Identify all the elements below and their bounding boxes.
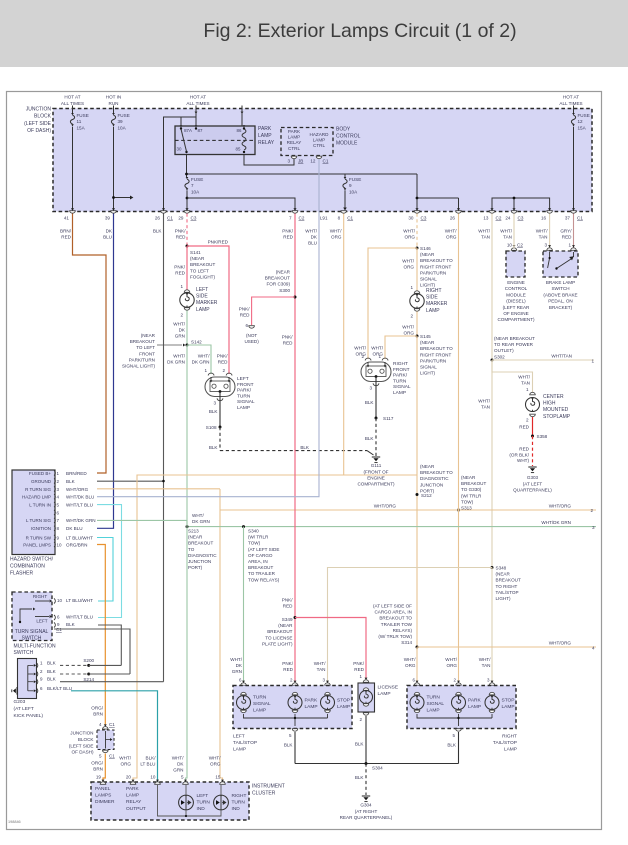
svg-text:BLK: BLK (47, 677, 57, 682)
svg-text:OUTLET): OUTLET) (494, 348, 514, 353)
svg-text:IND: IND (197, 806, 206, 812)
svg-text:ALL TIMES: ALL TIMES (559, 101, 582, 106)
svg-text:PARK: PARK (126, 786, 140, 792)
svg-text:(W/ TRLR TOW): (W/ TRLR TOW) (378, 634, 412, 639)
wire fuse 7 to pin 7 C2 (187, 198, 295, 211)
G203 connector box (18, 659, 37, 699)
wire BRN/RED pin41 to hazard switch pin1 (73, 214, 107, 474)
svg-text:HAZARD: HAZARD (310, 132, 330, 137)
svg-text:LAMP: LAMP (427, 707, 440, 713)
wire S314 down to right turn lamp (416, 647, 418, 682)
svg-text:WHT/: WHT/ (500, 229, 512, 234)
svg-text:(ABOVE BRAKE: (ABOVE BRAKE (543, 292, 577, 297)
svg-text:BLK/LT BLU: BLK/LT BLU (47, 686, 72, 691)
svg-text:C3: C3 (421, 216, 427, 221)
svg-text:CLUSTER: CLUSTER (252, 790, 276, 796)
left tail internal bus (244, 714, 328, 718)
svg-text:ORG: ORG (405, 235, 416, 240)
svg-text:BLU: BLU (308, 241, 317, 246)
svg-text:LT BLU/WHT: LT BLU/WHT (66, 535, 93, 540)
small junction block box (97, 730, 114, 750)
svg-text:7: 7 (57, 518, 60, 523)
svg-text:LAMP: LAMP (288, 135, 301, 140)
svg-text:PARK/: PARK/ (237, 388, 252, 394)
splice S142 (186, 344, 189, 347)
svg-text:1: 1 (40, 660, 43, 665)
svg-text:(NEAR: (NEAR (141, 333, 156, 338)
offpage wire 3 WHT/DK GRN (187, 526, 596, 528)
svg-text:39: 39 (118, 119, 124, 124)
svg-text:WHT/: WHT/ (536, 229, 548, 234)
svg-text:BRACKET): BRACKET) (549, 305, 573, 310)
svg-text:LAMP: LAMP (426, 308, 440, 314)
svg-text:TURN: TURN (232, 800, 246, 806)
svg-text:PARK/: PARK/ (393, 373, 408, 379)
svg-text:BREAKOUT: BREAKOUT (130, 339, 155, 344)
svg-text:PNK/: PNK/ (282, 598, 293, 603)
ground at G203 (16, 687, 18, 695)
wire hazard pin4 WHT/DK BLU to BCM riser (97, 225, 319, 497)
svg-text:DK: DK (106, 229, 113, 234)
svg-text:RED: RED (283, 667, 293, 672)
svg-text:DIAGNOSTIC: DIAGNOSTIC (188, 553, 217, 558)
splice S349 (294, 616, 297, 619)
svg-text:FLASHER: FLASHER (10, 571, 33, 577)
svg-text:LAMP: LAMP (313, 138, 326, 143)
right turn signal lamp bulb (410, 696, 424, 710)
svg-text:2: 2 (591, 508, 594, 513)
svg-text:2: 2 (453, 678, 456, 683)
wire internal bus pins 16 to 13/24 (492, 198, 550, 211)
svg-text:PNK/: PNK/ (282, 661, 293, 666)
splice S141 (186, 245, 189, 248)
svg-text:WHT/DK GRN: WHT/DK GRN (66, 518, 96, 523)
svg-text:HOT AT: HOT AT (190, 95, 206, 100)
svg-text:S213: S213 (188, 529, 199, 534)
wire hot feed to relay 87/87A (195, 112, 197, 126)
wire WHT/TAN pin24C3 to ECM (513, 214, 515, 249)
svg-text:PARK: PARK (288, 129, 301, 134)
svg-text:(FRONT OF: (FRONT OF (364, 470, 389, 475)
instrument cluster box (91, 782, 249, 820)
svg-text:DK: DK (311, 235, 318, 240)
svg-text:LAMP: LAMP (196, 307, 210, 313)
splice S358 (531, 435, 534, 438)
svg-text:TO LEFT: TO LEFT (190, 268, 209, 273)
svg-text:FUSE: FUSE (578, 113, 590, 118)
svg-text:SIDE: SIDE (196, 294, 208, 300)
cluster internal wiring (158, 785, 222, 816)
svg-text:4: 4 (99, 722, 102, 727)
svg-text:C1: C1 (109, 722, 115, 727)
svg-text:S200: S200 (83, 658, 94, 663)
svg-text:5: 5 (99, 754, 102, 759)
svg-text:PNK/: PNK/ (282, 229, 293, 234)
svg-text:G303: G303 (527, 475, 539, 480)
svg-text:5: 5 (181, 775, 184, 780)
svg-text:QUARTERPANEL): QUARTERPANEL) (513, 488, 552, 493)
svg-text:WHT/: WHT/ (119, 756, 131, 761)
svg-text:S340: S340 (248, 529, 259, 534)
svg-text:RED: RED (61, 235, 71, 240)
svg-text:2: 2 (222, 368, 225, 373)
svg-text:REAR QUARTERPANEL): REAR QUARTERPANEL) (340, 815, 393, 820)
wire G203 pin6 BLK/LT BLU to cluster pin10 (71, 691, 158, 783)
svg-text:BLK: BLK (355, 775, 365, 780)
svg-text:RED: RED (354, 667, 364, 672)
svg-text:15A: 15A (578, 125, 587, 130)
wire PNK/RED pin29 dashed to S141 (186, 214, 188, 247)
svg-text:USED): USED) (244, 339, 259, 344)
svg-text:PANEL: PANEL (95, 786, 111, 792)
svg-text:LAMP: LAMP (504, 746, 517, 752)
svg-text:RIGHT: RIGHT (502, 734, 517, 740)
svg-text:BREAKOUT TO: BREAKOUT TO (420, 258, 453, 263)
svg-text:PARK: PARK (305, 698, 319, 704)
fuse 11 15A (71, 113, 74, 115)
svg-text:BLK: BLK (284, 743, 294, 748)
svg-text:ENGINE: ENGINE (367, 476, 385, 481)
wire WHT/DK GRN down to cluster pin5 (186, 527, 188, 782)
svg-text:(AT LEFT SIDE OF: (AT LEFT SIDE OF (373, 604, 412, 609)
wire G203 pin9 to BLK riser (60, 681, 164, 683)
svg-text:HAZARD LMP: HAZARD LMP (22, 495, 51, 500)
svg-text:10: 10 (57, 542, 63, 547)
svg-text:LIGHT): LIGHT) (420, 371, 436, 376)
svg-text:TAN: TAN (481, 235, 490, 240)
wire S348 down to right stop lamp (491, 568, 493, 683)
svg-text:DIAGNOSTIC: DIAGNOSTIC (420, 476, 449, 481)
svg-text:PEDAL, ON: PEDAL, ON (548, 299, 573, 304)
svg-text:BLK: BLK (355, 742, 365, 747)
svg-text:87A: 87A (184, 128, 192, 133)
svg-text:S358: S358 (537, 434, 548, 439)
svg-text:29: 29 (178, 216, 184, 221)
svg-text:LAMP: LAMP (502, 704, 515, 710)
hazard switch / combination flasher box (12, 470, 55, 555)
svg-text:2: 2 (361, 354, 364, 359)
svg-text:S117: S117 (383, 416, 394, 421)
wire stop lamp bus S313 to left stop (328, 568, 459, 683)
svg-text:(DIESEL): (DIESEL) (506, 299, 526, 304)
svg-text:WHT/: WHT/ (402, 325, 414, 330)
svg-text:3: 3 (287, 159, 290, 164)
wire right lamp pin3 BLK to S117 (375, 377, 377, 419)
svg-text:BREAKOUT TO: BREAKOUT TO (420, 346, 453, 351)
svg-text:G203: G203 (14, 699, 26, 705)
svg-text:C2: C2 (496, 216, 502, 221)
splice S304 (365, 762, 368, 765)
svg-text:WHT/: WHT/ (402, 259, 414, 264)
svg-text:BLK/: BLK/ (146, 756, 157, 761)
svg-text:STOP: STOP (502, 698, 515, 704)
wire BLK pin26C1 vertical (163, 214, 165, 682)
svg-text:STOP: STOP (337, 698, 350, 704)
svg-text:BLOCK: BLOCK (34, 114, 52, 120)
svg-text:(NEAR: (NEAR (188, 535, 203, 540)
svg-text:TO: TO (188, 547, 195, 552)
svg-text:(NEAR: (NEAR (420, 464, 435, 469)
svg-text:FUSE: FUSE (191, 177, 203, 182)
splice S348 (491, 566, 494, 569)
svg-text:3: 3 (487, 678, 490, 683)
svg-text:S314: S314 (401, 640, 412, 645)
svg-text:10: 10 (57, 598, 63, 603)
rear ground bus BLK (295, 763, 459, 765)
BCM pin 12 C1 (316, 156, 322, 159)
svg-text:Fig 2: Exterior Lamps Circuit: Fig 2: Exterior Lamps Circuit (1 of 2) (203, 20, 516, 42)
svg-text:HOT AT: HOT AT (563, 95, 579, 100)
fuse 12 15A (572, 113, 575, 115)
wire pin 26 riser to relay (164, 117, 182, 211)
svg-text:WHT/: WHT/ (518, 375, 530, 380)
wire TSS pin9 BLK to S200 (98, 625, 121, 665)
wire JB pin5 ORG/BRN to cluster pin19 (103, 754, 105, 783)
svg-text:WHT): WHT) (517, 458, 529, 463)
svg-text:PNK/: PNK/ (217, 354, 228, 359)
svg-text:TURN SIGNAL: TURN SIGNAL (15, 629, 49, 635)
svg-text:TAN: TAN (481, 405, 490, 410)
svg-text:(LEFT REAR: (LEFT REAR (503, 305, 530, 310)
svg-text:6: 6 (245, 323, 248, 328)
svg-text:BRN/RED: BRN/RED (66, 471, 87, 476)
svg-text:TAIL/STOP: TAIL/STOP (496, 590, 519, 595)
svg-text:WHT/ORG: WHT/ORG (549, 641, 572, 646)
svg-text:WHT/ORG: WHT/ORG (549, 504, 572, 509)
fuse 7 10A (186, 177, 189, 179)
svg-text:LEFT: LEFT (237, 376, 249, 382)
wire WHT/ORG pin30C3 dashed to S146 (416, 214, 418, 249)
svg-text:12: 12 (310, 159, 316, 164)
svg-text:TAN: TAN (521, 381, 530, 386)
offpage wire 4 WHT/ORG (417, 646, 596, 648)
svg-text:LEFT: LEFT (196, 287, 208, 293)
svg-text:RED: RED (283, 604, 293, 609)
svg-text:WHT/: WHT/ (209, 756, 221, 761)
wire pin13 down to S348 (491, 360, 493, 568)
svg-text:WHT/: WHT/ (192, 513, 204, 518)
svg-text:C1: C1 (347, 216, 353, 221)
svg-text:C1: C1 (109, 754, 115, 759)
wire G203 pin2 dashed (60, 673, 89, 675)
wire RED dashed to G303 (532, 436, 534, 466)
svg-text:SIGNAL: SIGNAL (420, 277, 437, 282)
svg-text:RELAYS): RELAYS) (393, 628, 413, 633)
svg-text:LIGHT): LIGHT) (420, 283, 436, 288)
wire BCM pin 12 down (WHT/DK BLU riser) (318, 159, 320, 225)
svg-text:JB: JB (298, 159, 303, 164)
fuse 39 10A (112, 113, 115, 115)
svg-text:CENTER: CENTER (543, 394, 564, 400)
svg-text:1: 1 (180, 284, 183, 289)
splice S145 (416, 335, 419, 338)
svg-text:(LEFT SIDE: (LEFT SIDE (24, 121, 52, 127)
svg-text:S141: S141 (190, 250, 201, 255)
wire hazard pin9 LT BLU/WHT to TSS pin10 (97, 538, 113, 602)
wire S340 down to left turn lamp (243, 527, 245, 682)
svg-text:BLK: BLK (209, 409, 219, 414)
svg-text:TAIL/STOP: TAIL/STOP (493, 740, 517, 746)
svg-text:S146: S146 (420, 246, 431, 251)
svg-text:RELAY: RELAY (126, 799, 142, 805)
svg-text:C1: C1 (167, 216, 173, 221)
svg-text:JUNCTION: JUNCTION (420, 482, 443, 487)
svg-text:HOT AT: HOT AT (64, 95, 80, 100)
svg-text:1: 1 (568, 243, 571, 248)
svg-text:3: 3 (592, 525, 595, 530)
svg-text:LAMP: LAMP (258, 133, 272, 139)
wire fuse12 to pin 37 (573, 127, 575, 211)
svg-text:PORT): PORT) (188, 565, 203, 570)
wire fuse11 to pin 41 (72, 127, 74, 211)
svg-text:(W/ TRLR: (W/ TRLR (248, 535, 269, 540)
svg-text:BLK: BLK (209, 445, 219, 450)
svg-text:(NEAR: (NEAR (496, 572, 511, 577)
svg-text:DK BLU: DK BLU (66, 526, 83, 531)
wire S300 to not-used pin (252, 297, 295, 325)
svg-text:39: 39 (105, 216, 111, 221)
svg-text:BLOCK: BLOCK (78, 737, 95, 742)
svg-text:CONTROL: CONTROL (336, 134, 361, 140)
svg-text:ORG/: ORG/ (91, 706, 103, 711)
wire G203 pin1 dashed to S200 (60, 664, 89, 666)
wire stoplamp RED to S358 (532, 417, 534, 436)
fuse 9 10A (344, 177, 347, 179)
wire S141 to left park/turn lamp pin2 (187, 246, 229, 374)
svg-text:BRAKE LAMP: BRAKE LAMP (546, 280, 575, 285)
svg-text:6: 6 (57, 510, 60, 515)
wire BLK dashed to ground bus (219, 427, 221, 451)
svg-text:MULTI-FUNCTION: MULTI-FUNCTION (14, 644, 57, 650)
svg-text:CTRL: CTRL (313, 143, 325, 148)
svg-text:19: 19 (96, 775, 102, 780)
svg-text:BLK: BLK (447, 743, 457, 748)
svg-text:STOPLAMP: STOPLAMP (543, 414, 571, 420)
svg-text:(NEAR: (NEAR (278, 623, 293, 628)
svg-text:LAMP: LAMP (126, 793, 139, 799)
svg-text:FRONT: FRONT (139, 351, 155, 356)
ground G111 (372, 456, 380, 458)
svg-text:BREAKOUT: BREAKOUT (461, 481, 486, 486)
svg-text:37: 37 (565, 216, 571, 221)
svg-text:(LEFT SIDE: (LEFT SIDE (69, 743, 94, 748)
svg-text:RED: RED (240, 313, 250, 318)
svg-text:TRAILER TOW: TRAILER TOW (381, 622, 413, 627)
svg-text:5: 5 (289, 733, 292, 738)
svg-text:87: 87 (198, 128, 203, 133)
right park lamp bulb (452, 696, 466, 710)
svg-text:DK: DK (179, 328, 186, 333)
svg-text:SIDE: SIDE (426, 295, 438, 301)
svg-text:BLK: BLK (66, 622, 76, 627)
svg-text:TURN: TURN (427, 695, 441, 701)
svg-text:5: 5 (57, 502, 60, 507)
svg-text:C1: C1 (323, 159, 329, 164)
ground G303 (528, 466, 536, 468)
svg-text:BREAKOUT: BREAKOUT (248, 565, 273, 570)
svg-text:L TURN SIG: L TURN SIG (26, 518, 52, 523)
feed entry arrows (195, 112, 198, 114)
svg-text:6: 6 (40, 686, 43, 691)
svg-text:TO LEFT: TO LEFT (136, 345, 155, 350)
svg-text:IND: IND (232, 806, 241, 812)
svg-text:RELAY: RELAY (287, 140, 302, 145)
svg-text:BLK: BLK (153, 229, 163, 234)
svg-text:WHT/: WHT/ (230, 657, 242, 662)
svg-text:WHT/: WHT/ (173, 322, 185, 327)
svg-text:BREAKOUT TO: BREAKOUT TO (420, 470, 453, 475)
wire S302 to center stoplamp (492, 360, 533, 392)
svg-text:PNK/: PNK/ (174, 265, 185, 270)
junction block bottom pin connectors (71, 208, 74, 211)
svg-text:LAMP: LAMP (305, 704, 318, 710)
BCM pin 3 JB (291, 156, 297, 159)
svg-text:24: 24 (505, 216, 511, 221)
svg-text:GRN: GRN (175, 334, 185, 339)
svg-text:ORG: ORG (404, 331, 415, 336)
svg-text:RED: RED (519, 447, 529, 452)
svg-text:2: 2 (526, 418, 529, 423)
svg-text:LEFT: LEFT (233, 734, 245, 740)
svg-text:LAMP: LAMP (393, 390, 406, 396)
svg-text:BREAKOUT: BREAKOUT (496, 578, 521, 583)
svg-text:2: 2 (290, 678, 293, 683)
wire DK BLU pin39 to hazard switch pin8 (97, 214, 114, 529)
svg-text:WHT/ORG: WHT/ORG (374, 504, 397, 509)
svg-text:HAZARD SWITCH/: HAZARD SWITCH/ (10, 557, 54, 563)
svg-text:SIGNAL: SIGNAL (393, 384, 411, 390)
svg-text:DK GRN: DK GRN (167, 360, 185, 365)
wire S145 branch to right lamp pin1 (385, 336, 417, 359)
svg-text:MODULE: MODULE (336, 141, 358, 147)
svg-text:DK: DK (177, 762, 184, 767)
svg-text:HOT IN: HOT IN (106, 95, 121, 100)
svg-text:10A: 10A (349, 189, 358, 194)
branch arrow hot-in-run (114, 197, 131, 199)
svg-text:PLATE LIGHT): PLATE LIGHT) (262, 641, 293, 646)
svg-text:DK: DK (236, 663, 243, 668)
wire hazard pin5 WHT/LT BLU to TSS pin6 (97, 505, 122, 618)
svg-text:PARK/TURN: PARK/TURN (420, 358, 446, 363)
svg-text:R TURN SIG: R TURN SIG (25, 487, 51, 492)
wire PNK/RED pin7C2 down to left park lamp (294, 214, 296, 683)
svg-text:7: 7 (191, 183, 194, 188)
ground bus dashed BLK (220, 450, 367, 452)
svg-text:LT BLU: LT BLU (140, 762, 155, 767)
svg-text:1: 1 (526, 387, 529, 392)
svg-text:WHT/: WHT/ (478, 399, 490, 404)
svg-text:BREAKOUT: BREAKOUT (188, 541, 213, 546)
svg-text:S145: S145 (420, 334, 431, 339)
svg-text:CARGO AREA, IN: CARGO AREA, IN (374, 610, 412, 615)
svg-text:LIGHT): LIGHT) (496, 596, 512, 601)
svg-text:SIGNAL: SIGNAL (237, 399, 255, 405)
svg-text:TO RIGHT: TO RIGHT (496, 584, 518, 589)
svg-text:S212: S212 (421, 493, 432, 498)
svg-text:TOW RELAYS): TOW RELAYS) (248, 577, 280, 582)
svg-text:BLK: BLK (300, 445, 310, 450)
wire fuse 9 to pin 8 (344, 191, 346, 208)
wire S145 down to S212/S314 (416, 336, 418, 647)
wire BLK branch to hazard pin2 (97, 480, 164, 482)
svg-text:WHT/ORG: WHT/ORG (66, 487, 89, 492)
svg-text:10: 10 (507, 243, 513, 248)
svg-text:SWITCH: SWITCH (14, 650, 34, 656)
svg-text:BLK: BLK (47, 660, 57, 665)
splice S117 (375, 417, 378, 420)
svg-text:TOW): TOW) (461, 499, 474, 504)
svg-text:MARKER: MARKER (196, 300, 218, 306)
